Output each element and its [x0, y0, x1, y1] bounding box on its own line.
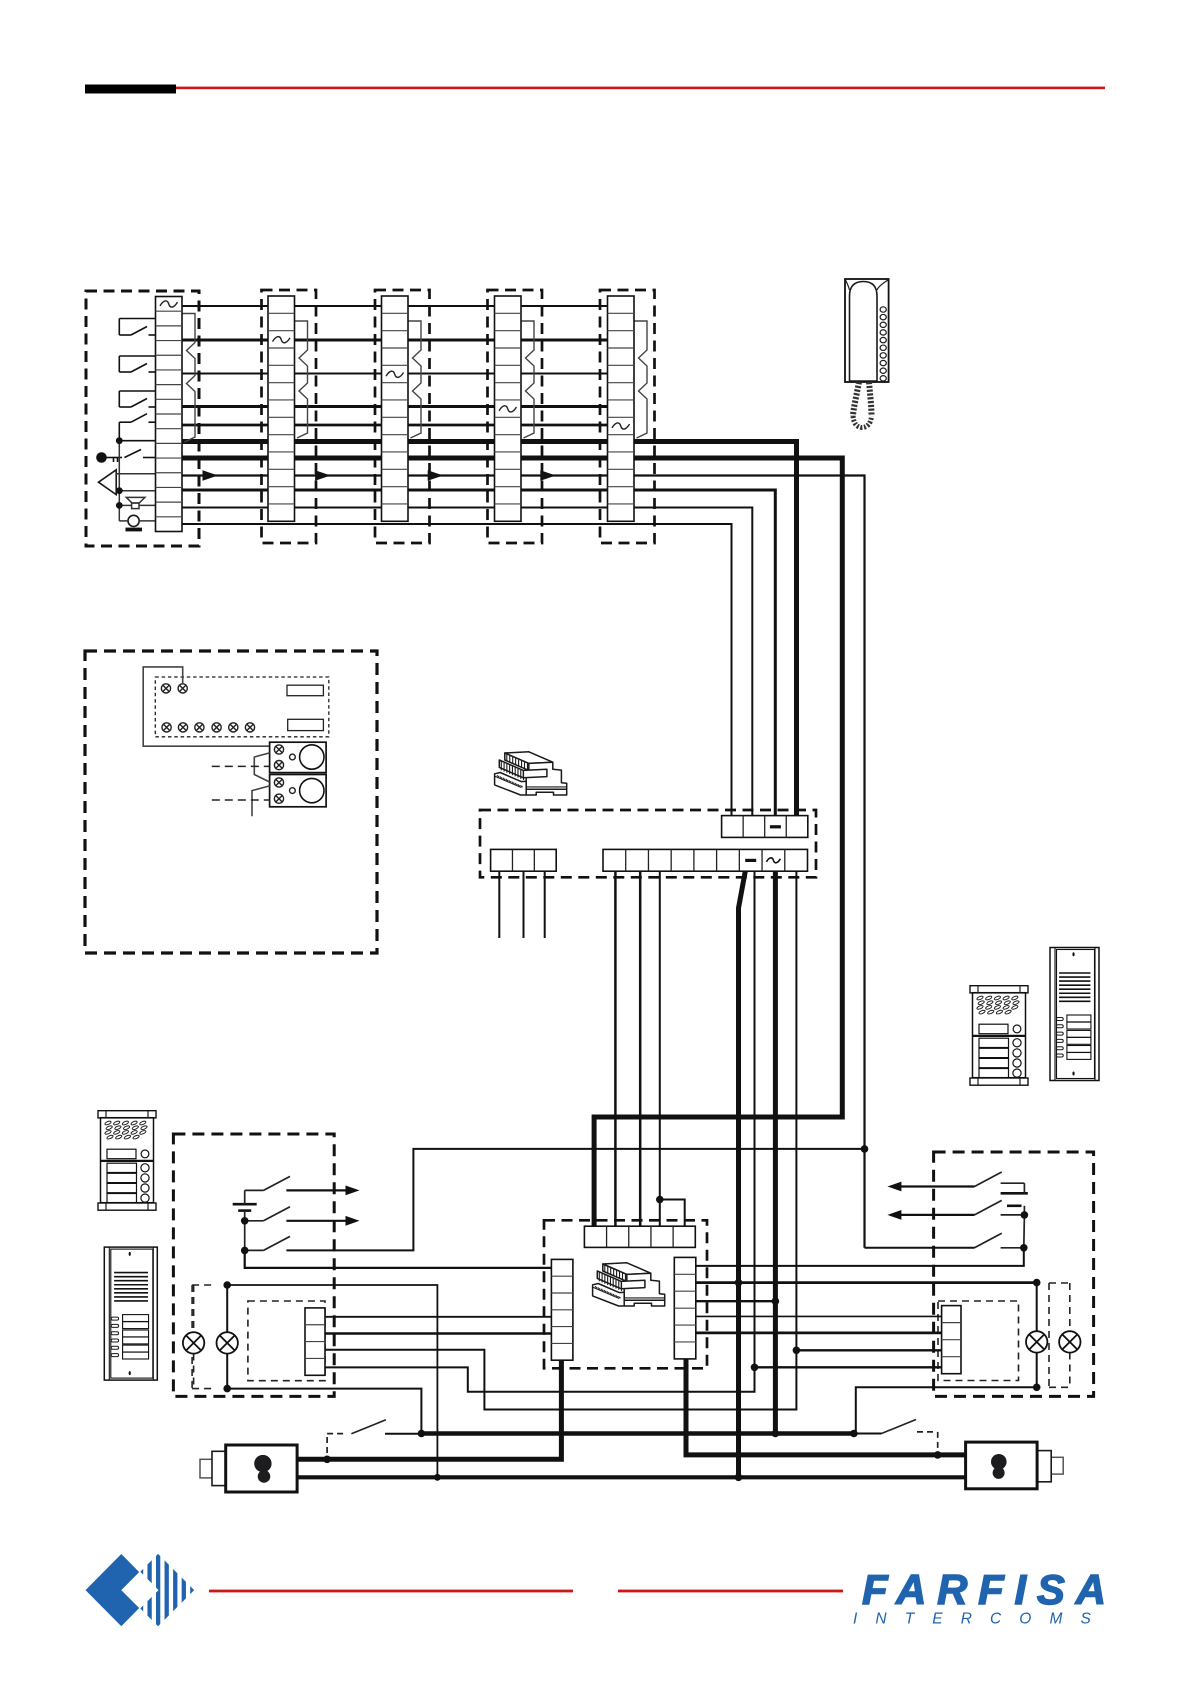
- junction: [772, 1297, 780, 1305]
- header red rule: [176, 87, 1105, 90]
- microphone: [128, 515, 139, 526]
- wire: [245, 1250, 552, 1268]
- relay 1: [270, 742, 327, 772]
- wire: [325, 1316, 551, 1318]
- wire (dashed option): [212, 799, 270, 801]
- wire bus F: [182, 524, 732, 816]
- wire bus thick B (to central unit): [182, 458, 842, 1226]
- mains terminal strip (upper): [722, 816, 808, 838]
- junction: [656, 1196, 664, 1204]
- wire: [865, 1247, 975, 1249]
- call switch S3 (left): [245, 1249, 264, 1251]
- junction: [793, 1347, 801, 1355]
- terminal strip WB2: [268, 296, 295, 521]
- arrowhead: [428, 470, 444, 480]
- central unit top terminal strip: [584, 1226, 695, 1247]
- wire bus thick A (to PSU): [182, 442, 797, 816]
- circuit board (dotted): [155, 677, 328, 737]
- wire: [116, 490, 155, 492]
- battery (right): [1001, 1192, 1028, 1195]
- call switch S2 (left): [245, 1220, 264, 1222]
- output terminal strip (lower): [603, 849, 808, 871]
- wall handset icon: [845, 279, 889, 382]
- wire: [755, 1366, 942, 1368]
- call switch S2 (right): [1001, 1214, 1025, 1216]
- board terminals: [161, 684, 170, 693]
- door release switch (left): [326, 1437, 328, 1459]
- intercom station 5 (dashed enclosure): [600, 290, 655, 543]
- wire: [139, 504, 156, 506]
- key switch (door release): [106, 457, 122, 459]
- lamp L1 (left): [226, 1285, 228, 1332]
- wire: [252, 786, 270, 816]
- wire (lamp feed): [227, 1285, 437, 1477]
- junction: [735, 1279, 743, 1287]
- wire thick (right lock): [686, 1359, 966, 1455]
- junction: [116, 437, 123, 444]
- lamp R2 (right, dashed option): [1048, 1283, 1050, 1387]
- terminal strip WB1: [156, 297, 183, 532]
- DIN module icon: [593, 1263, 665, 1306]
- arrowhead: [315, 470, 331, 480]
- junction: [735, 1474, 743, 1482]
- junction: [861, 1145, 869, 1153]
- wire stub: [498, 871, 500, 938]
- intercom station 2 (dashed enclosure): [262, 290, 317, 543]
- push button P2: [119, 355, 155, 357]
- wire: [696, 1300, 776, 1302]
- header black bar: [85, 85, 176, 94]
- right entrance unit (dashed enclosure): [934, 1152, 1094, 1396]
- wire (dashed option): [212, 765, 270, 767]
- lamp L2 (left, dashed option): [191, 1285, 193, 1389]
- central unit left terminal strip: [551, 1259, 573, 1360]
- junction: [751, 1364, 759, 1372]
- wire: [325, 1332, 551, 1334]
- cable brace: [183, 314, 196, 443]
- wire: [696, 1315, 942, 1317]
- junction: [934, 1451, 942, 1459]
- junction: [223, 1385, 231, 1393]
- wire stub: [523, 871, 525, 938]
- DIN transformer icon: [495, 752, 567, 795]
- amplifier triangle: [99, 470, 117, 495]
- wire: [659, 871, 661, 1226]
- call switch S1 (right): [1001, 1182, 1025, 1184]
- terminal strip WB5: [608, 296, 635, 521]
- wire: [696, 1332, 942, 1335]
- board component: [288, 719, 324, 730]
- power supply (dashed enclosure): [480, 810, 816, 877]
- cable brace: [409, 321, 422, 438]
- junction: [323, 1456, 331, 1464]
- svg-text:INTERCOMS: INTERCOMS: [853, 1611, 1103, 1628]
- junction: [418, 1430, 426, 1438]
- wire (lamp return right): [856, 1387, 1037, 1433]
- wire bus L5: [182, 424, 620, 427]
- board component: [287, 685, 323, 696]
- terminal strip WB3: [382, 296, 409, 521]
- handset coiled cord: [853, 382, 859, 416]
- cable brace: [295, 321, 308, 438]
- push button P1: [119, 318, 155, 320]
- wire: [614, 871, 617, 1226]
- electric lock (left): [200, 1445, 297, 1492]
- lamp R1 (right): [1036, 1283, 1038, 1331]
- module enclosure (dashed right): [938, 1301, 1019, 1381]
- terminal strip WB4: [495, 296, 522, 521]
- electric lock (right): [966, 1442, 1064, 1489]
- wire: [254, 753, 269, 782]
- wire: [325, 871, 796, 1409]
- module enclosure (dashed): [248, 1301, 325, 1381]
- left entrance unit (dashed enclosure): [173, 1134, 334, 1396]
- wire (lock common) thick: [421, 1431, 854, 1436]
- wire branch: [660, 1200, 685, 1227]
- right module terminal strip: [942, 1306, 961, 1374]
- push button P3: [119, 390, 155, 392]
- push button P4: [119, 421, 131, 423]
- wire: [639, 871, 642, 1226]
- central unit (dashed enclosure): [544, 1220, 707, 1368]
- wire: [696, 1248, 1024, 1266]
- wire: [119, 440, 155, 442]
- wire bus L1: [182, 305, 620, 307]
- door station icon (tall, left): [104, 1247, 157, 1380]
- wire (lamp feed right): [696, 1281, 1037, 1284]
- wire bus E: [182, 508, 752, 816]
- wire stub: [544, 871, 546, 938]
- junction: [223, 1281, 231, 1289]
- door release switch (right): [854, 1433, 882, 1435]
- cable brace: [522, 321, 535, 438]
- ACI Farfisa logo: [86, 1550, 195, 1630]
- relay 2: [270, 775, 327, 807]
- battery (left): [233, 1203, 257, 1206]
- wire bus L3: [182, 373, 620, 375]
- door station icon (small, right): [970, 986, 1028, 1085]
- wire: [143, 667, 269, 746]
- aux terminal strip: [491, 849, 557, 871]
- wire (lamp return): [227, 1389, 421, 1434]
- wire: [796, 1349, 941, 1351]
- call switch S3 (right): [1001, 1247, 1025, 1249]
- wire bus D: [182, 490, 775, 816]
- wire thick (- lead): [739, 871, 746, 1477]
- junction: [241, 1217, 249, 1225]
- wire thick (~ lead): [773, 871, 778, 1433]
- wire: [116, 473, 155, 475]
- wire bus C with arrows: [182, 476, 865, 1248]
- power supply unit (dashed enclosure): [85, 651, 377, 953]
- central unit right terminal strip: [674, 1257, 696, 1359]
- intercom station 1 (dashed enclosure): [86, 291, 199, 546]
- red rule left: [209, 1590, 573, 1593]
- wire bus L4: [182, 405, 620, 408]
- wire: [118, 441, 120, 521]
- wire bus L2: [182, 339, 620, 342]
- left module terminal strip: [305, 1308, 325, 1375]
- wire thick (lock return): [297, 1475, 966, 1479]
- svg-text:FARFISA: FARFISA: [862, 1566, 1106, 1613]
- arrowhead: [203, 470, 219, 480]
- wire (to call switches): [286, 1149, 864, 1251]
- wire thick (left lock): [297, 1360, 561, 1459]
- wire: [325, 871, 755, 1391]
- door station icon (tall, right): [1050, 948, 1099, 1081]
- red rule right: [618, 1590, 843, 1593]
- junction: [116, 487, 123, 494]
- junction: [1021, 1211, 1029, 1219]
- wire: [119, 504, 131, 506]
- door station icon (small, left): [98, 1111, 156, 1211]
- junction: [116, 502, 123, 509]
- cable brace: [635, 321, 648, 438]
- junction: [1033, 1384, 1041, 1392]
- arrowhead: [540, 470, 556, 480]
- loudspeaker: [126, 497, 145, 503]
- intercom station 3 (dashed enclosure): [375, 290, 430, 543]
- intercom station 4 (dashed enclosure): [488, 290, 543, 543]
- call switch S1 (left): [245, 1189, 264, 1191]
